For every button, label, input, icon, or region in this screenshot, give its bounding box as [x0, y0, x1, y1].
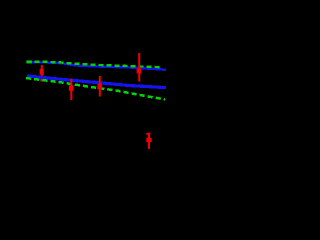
error bar 1 (red, drawn under lower lines) — [40, 65, 44, 82]
error bar 5 (red, isolated bottom right) — [146, 133, 151, 149]
wire: blue solid curve 1 (top) — [27, 62, 166, 69]
wire: blue solid curve 2 (middle, thick) — [27, 76, 166, 88]
error bar 4 (red) — [137, 53, 142, 82]
error bar 2 (red) — [69, 79, 74, 100]
wire: green dashed curve 2 (lower, diverging) — [26, 78, 165, 99]
first dash of green curve 1 (slightly thicker) — [26, 60, 32, 63]
error bar 3 (red) — [97, 76, 102, 97]
wire: green dashed curve 1 (top, overlaying blue) — [27, 62, 163, 68]
